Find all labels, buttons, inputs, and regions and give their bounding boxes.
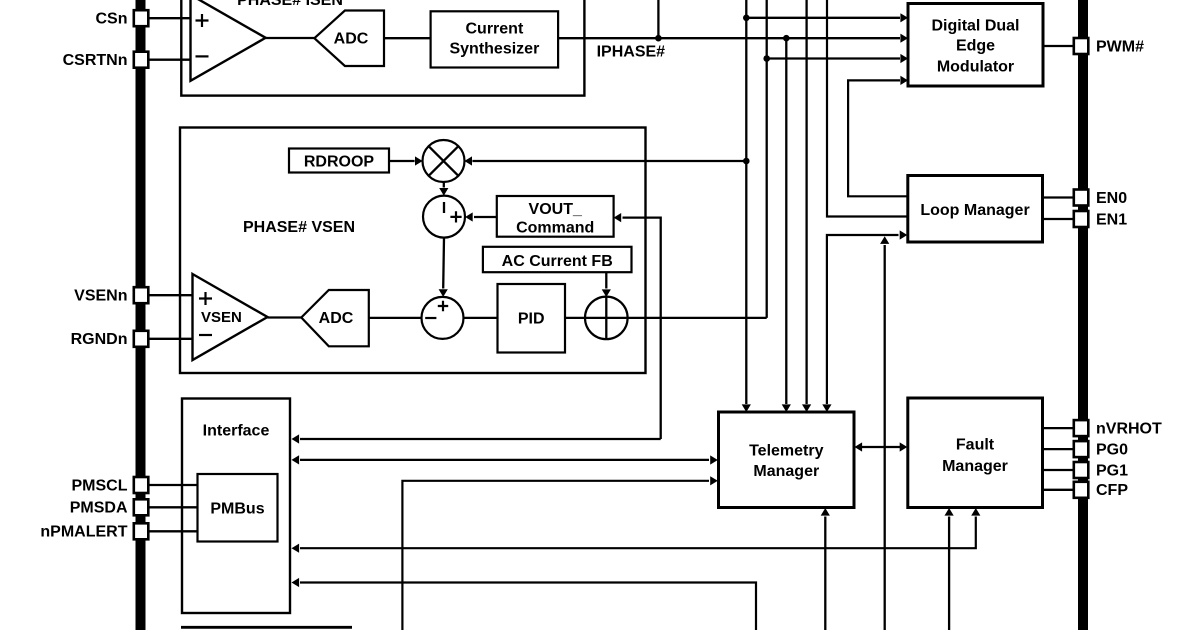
label PHASE# ISEN <box>237 0 343 9</box>
wire Interface to below (E) <box>292 578 757 630</box>
partial block below Interface <box>181 626 352 629</box>
node junction bus V1 / multiplier wire <box>743 158 750 165</box>
wire AC Current FB to adder <box>602 272 611 339</box>
svg-text:RDROOP: RDROOP <box>304 153 375 170</box>
wire stub up from IPHASE# node <box>657 0 659 38</box>
svg-text:PID: PID <box>518 311 545 328</box>
wire bus V1 (top to Telemetry Manager) <box>742 0 751 412</box>
pin CSRTNn <box>63 52 149 69</box>
svg-text:nPMALERT: nPMALERT <box>40 524 127 541</box>
svg-text:PWM#: PWM# <box>1096 38 1144 55</box>
wire Loop Manager to EN0 pin <box>1043 196 1074 198</box>
wire VOUT_ Command to summer S1 <box>465 212 497 221</box>
svg-text:CSRTNn: CSRTNn <box>63 52 128 69</box>
wire VSENn to op-amp <box>148 294 192 296</box>
multiplier (droop) <box>423 140 465 182</box>
block Telemetry Manager <box>719 412 855 508</box>
svg-text:CSn: CSn <box>96 11 128 28</box>
svg-text:PHASE# VSEN: PHASE# VSEN <box>243 219 355 236</box>
ADC converter (ISEN) <box>314 11 384 67</box>
wire RDROOP to multiplier <box>389 156 423 165</box>
svg-text:ADC: ADC <box>319 310 354 327</box>
wire op-amp to ADC <box>266 37 315 39</box>
wire PMSDA to PMBus <box>148 506 197 508</box>
wire bus V1 to multiplier <box>464 156 746 165</box>
pin CSn <box>96 10 149 27</box>
pin EN0 <box>1074 190 1127 207</box>
svg-text:Edge: Edge <box>956 38 995 55</box>
op-amp ISEN amplifier <box>191 0 266 81</box>
wire nPMALERT to PMBus <box>148 530 197 532</box>
block PHASE# VSEN outer box <box>180 128 646 374</box>
svg-text:Modulator: Modulator <box>937 59 1014 76</box>
wire summer S2 to PID <box>464 317 498 319</box>
label PHASE# VSEN <box>243 219 355 236</box>
pin PWM# <box>1074 38 1144 55</box>
pin PMSDA <box>70 499 149 516</box>
ADC converter (VSEN) <box>301 290 369 346</box>
wire bus V3 (IPHASE# to Telemetry Manager) <box>782 38 791 412</box>
block Digital Dual Edge Modulator <box>908 4 1043 87</box>
label IPHASE# <box>597 44 666 61</box>
svg-text:PMBus: PMBus <box>210 501 264 518</box>
wire op-amp to ADC (VSEN) <box>268 316 302 318</box>
wire bus V2 to DDEM input 3 <box>767 54 908 63</box>
svg-text:PHASE# ISEN: PHASE# ISEN <box>237 0 343 9</box>
wire summer S1 to summer S2 <box>439 238 448 297</box>
block Loop Manager <box>908 176 1043 243</box>
wire bus V1 to DDEM input 1 <box>746 13 908 22</box>
wire Interface to Telemetry Manager (B) <box>292 455 718 464</box>
wire bus V4 (top to Telemetry Manager) <box>802 0 811 412</box>
svg-text:PMSDA: PMSDA <box>70 500 128 517</box>
wire from below into Loop Manager wire (V7) <box>880 236 889 630</box>
svg-text:IPHASE#: IPHASE# <box>597 44 666 61</box>
summer S1 (droop minus) <box>423 196 465 238</box>
wire from below into Telemetry Manager bottom <box>821 508 830 630</box>
block PMBus <box>198 474 278 542</box>
wire CSn to op-amp <box>148 17 190 19</box>
op-amp VSEN amplifier <box>193 274 268 360</box>
pin EN1 <box>1074 211 1127 228</box>
wire ADC to summer S2 <box>369 317 422 319</box>
block VOUT_ Command <box>497 196 614 237</box>
node junction bus V2 / DDEM wire <box>763 55 770 62</box>
svg-text:ADC: ADC <box>334 30 369 47</box>
pin RGNDn <box>71 331 149 348</box>
svg-text:RGNDn: RGNDn <box>71 331 128 348</box>
wire DDEM to PWM# pin <box>1043 45 1074 47</box>
pin nVRHOT <box>1074 420 1162 437</box>
svg-text:Loop Manager: Loop Manager <box>920 202 1029 219</box>
svg-text:Current: Current <box>466 21 524 38</box>
svg-text:Telemetry: Telemetry <box>749 442 824 459</box>
svg-text:PG0: PG0 <box>1096 442 1128 459</box>
wire Fault Manager to nVRHOT pin <box>1043 427 1074 429</box>
svg-text:VOUT_: VOUT_ <box>529 201 583 218</box>
wire Loop Manager to EN1 pin <box>1043 218 1074 220</box>
svg-text:AC Current FB: AC Current FB <box>502 253 613 270</box>
block PID compensator <box>498 284 566 353</box>
svg-text:VSEN: VSEN <box>201 309 242 326</box>
svg-text:nVRHOT: nVRHOT <box>1096 421 1162 438</box>
wire Loop Manager to DDEM input 4 <box>848 76 908 197</box>
wire Fault Manager to PG0 pin <box>1043 448 1074 450</box>
svg-text:PMSCL: PMSCL <box>72 477 128 494</box>
wire PMSCL to PMBus <box>148 484 197 486</box>
svg-text:VSENn: VSENn <box>74 288 127 305</box>
wire interface bus into VOUT_ Command <box>614 213 661 439</box>
wire RGNDn to op-amp <box>148 338 192 340</box>
summer S2 (voltage error) <box>422 297 464 339</box>
wire PID output through adder to bus V2 <box>565 317 767 319</box>
svg-text:CFP: CFP <box>1096 482 1128 499</box>
wire bus V5 (top to Loop Manager) <box>827 0 908 217</box>
wire multiplier to summer S1 <box>439 182 448 196</box>
wire Fault Manager to PG1 pin <box>1043 469 1074 471</box>
svg-text:EN0: EN0 <box>1096 190 1127 207</box>
svg-text:Manager: Manager <box>942 458 1008 475</box>
svg-text:Fault: Fault <box>956 436 995 453</box>
block PHASE# ISEN outer box <box>181 0 584 96</box>
wire IPHASE# to Digital Dual Edge Modulator <box>558 34 908 43</box>
node junction IPHASE# to bus V3 <box>783 35 790 42</box>
pin VSENn <box>74 287 148 304</box>
block AC Current FB <box>483 247 632 272</box>
wire ADC to Current Synthesizer <box>384 37 431 39</box>
wire Fault Manager to CFP pin <box>1043 489 1074 491</box>
wire Telemetry Manager to Fault Manager (bidirectional) <box>855 442 908 451</box>
svg-text:Synthesizer: Synthesizer <box>449 41 539 58</box>
block Interface <box>182 399 290 614</box>
pin nPMALERT <box>40 523 148 540</box>
wire CSRTNn to op-amp <box>148 59 190 61</box>
svg-text:Digital Dual: Digital Dual <box>931 18 1019 35</box>
svg-text:PG1: PG1 <box>1096 462 1128 479</box>
pin PG0 <box>1074 441 1128 458</box>
left chip boundary bar <box>136 0 146 630</box>
adder (AC current feedforward) <box>585 297 628 340</box>
svg-text:EN1: EN1 <box>1096 211 1127 228</box>
pin CFP <box>1074 482 1129 499</box>
right chip boundary bar <box>1078 0 1088 630</box>
wire Loop Manager to Telemetry Manager <box>822 230 907 412</box>
wire from below to Telemetry Manager (C) <box>402 476 717 630</box>
block Fault Manager <box>908 398 1043 508</box>
wire Interface to VOUT_ Command (A) <box>292 434 661 443</box>
wire from below into Fault Manager bottom <box>945 508 954 630</box>
svg-text:Interface: Interface <box>203 423 270 440</box>
wire Interface to Fault Manager bottom (D) <box>292 508 981 553</box>
svg-text:Manager: Manager <box>753 463 819 480</box>
pin PG1 <box>1074 462 1128 479</box>
pin PMSCL <box>72 477 149 494</box>
svg-text:Command: Command <box>516 220 594 237</box>
node junction IPHASE# stub <box>655 35 662 42</box>
block Current Synthesizer <box>431 11 558 67</box>
wire bus V2 (PID output to top) <box>766 0 768 318</box>
node junction bus V1 / DDEM wire <box>743 14 750 21</box>
block RDROOP <box>289 149 389 173</box>
